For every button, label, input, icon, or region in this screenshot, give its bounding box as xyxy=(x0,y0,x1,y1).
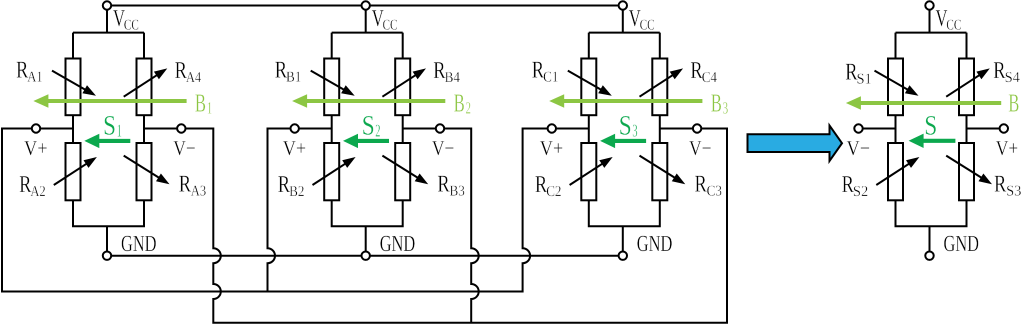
svg-text:S3: S3 xyxy=(1006,183,1021,199)
svg-text:R: R xyxy=(437,171,449,197)
label V+ (left node, bridge C) xyxy=(540,136,564,160)
resistor R_A4 (top-right strain gauge) xyxy=(124,59,168,116)
node terminal V&#8722; (bridge S, left) xyxy=(854,124,862,132)
svg-text:A3: A3 xyxy=(191,183,206,199)
arrow B: equivalent bridge output (light green) xyxy=(846,96,1001,110)
label GND (bridge S) xyxy=(944,231,980,256)
power terminal VCC (bridge A) xyxy=(103,1,111,9)
wire: left node stub (bridge A) xyxy=(32,128,73,130)
svg-text:S2: S2 xyxy=(853,184,868,200)
power terminal VCC (bridge C) xyxy=(619,1,627,9)
label R_A1 xyxy=(16,58,43,86)
svg-text:A2: A2 xyxy=(30,184,45,200)
label S2 xyxy=(362,111,381,142)
node terminal V+ (bridge C) xyxy=(548,124,556,132)
svg-text:3: 3 xyxy=(632,121,637,141)
resistor R_B4 (top-right strain gauge) xyxy=(382,59,426,116)
svg-text:S: S xyxy=(362,111,375,142)
resistor R_S3 (bottom-right strain gauge) xyxy=(946,143,992,200)
resistor R_S1 (top-left strain gauge) xyxy=(875,59,919,116)
label VCC (bridge A) xyxy=(113,6,139,34)
label GND (bridge C) xyxy=(637,231,673,256)
label R_A2 xyxy=(19,172,46,200)
label VCC (bridge S) xyxy=(936,6,962,34)
svg-text:V−: V− xyxy=(689,136,712,160)
svg-text:B3: B3 xyxy=(450,183,465,199)
node terminal V+ (bridge S, right) xyxy=(1000,124,1008,132)
arrow S2: bridge B half-bridge output (dark green) xyxy=(343,134,389,148)
label R_S1 xyxy=(845,60,872,88)
label V- (right node, bridge B) xyxy=(432,136,455,160)
ground terminal GND (bridge C) xyxy=(619,252,627,260)
svg-text:2: 2 xyxy=(375,121,380,141)
label R_A3 xyxy=(179,171,206,199)
label R_S3 xyxy=(994,171,1021,199)
svg-text:B: B xyxy=(711,89,722,118)
label V+ (left node, bridge A) xyxy=(24,136,48,160)
label V- (right node, bridge A) xyxy=(173,136,196,160)
label V- (left node, bridge S) xyxy=(847,136,871,160)
svg-text:R: R xyxy=(695,171,707,197)
svg-text:3: 3 xyxy=(723,99,729,118)
wire: bridge bottom rail to GND terminal xyxy=(896,200,967,255)
arrow B2: bridge B full-bridge output (light green) xyxy=(292,94,445,108)
wire: left node stub (bridge S) xyxy=(854,128,895,130)
resistor R_C1 (top-left strain gauge) xyxy=(568,59,612,116)
label R_C2 xyxy=(535,172,562,200)
wire: V+ net (bridge A left node, down left edge, along V+ rail, up to bridge C left node) xyxy=(2,129,589,292)
svg-text:S1: S1 xyxy=(857,72,872,88)
wire: GND bottom rail linking bridges A, B, C xyxy=(107,255,623,257)
label V+ (right node, bridge S) xyxy=(996,136,1019,160)
svg-text:B4: B4 xyxy=(445,70,461,86)
resistor R_S4 (top-right strain gauge) xyxy=(946,59,990,116)
label VCC (bridge C) xyxy=(629,6,655,34)
ground terminal GND (bridge B) xyxy=(362,252,370,260)
wire: left node stub (bridge B) xyxy=(291,128,332,130)
arrow S1: bridge A half-bridge output (dark green) xyxy=(84,134,130,148)
bridge A: wire from VCC terminal to bridge top rail xyxy=(73,6,144,59)
power terminal VCC (bridge S) xyxy=(925,1,933,9)
wire: right node stub (bridge S) xyxy=(967,128,1009,130)
svg-text:S: S xyxy=(924,110,937,141)
node terminal V+ (bridge A) xyxy=(32,124,40,132)
svg-text:S: S xyxy=(103,111,116,142)
svg-text:1: 1 xyxy=(207,99,213,118)
wire: V- tap of bridge B (right node down to V- rail, hopping GND and V+ rails) xyxy=(403,129,479,323)
wire: V- net (bridge A right node, down, along V- bottom rail, up to bridge C right node) xyxy=(144,129,727,323)
node terminal V&#8722; (bridge C) xyxy=(693,124,701,132)
resistor R_A2 (bottom-left strain gauge) xyxy=(54,143,97,200)
svg-text:V+: V+ xyxy=(283,136,307,160)
arrow B1: bridge A full-bridge output (light green) xyxy=(33,94,186,108)
svg-text:V+: V+ xyxy=(540,136,564,160)
svg-text:GND: GND xyxy=(637,231,673,256)
wire: left mid node column (R_C1 bottom to R_C2 top) xyxy=(588,115,590,143)
svg-text:CC: CC xyxy=(640,18,655,34)
resistor R_C2 (bottom-left strain gauge) xyxy=(570,143,613,200)
bridge S: wire from VCC terminal to bridge top rail xyxy=(896,6,967,59)
label S (bridge S) xyxy=(924,110,937,141)
svg-text:B1: B1 xyxy=(286,70,301,86)
arrow S3: bridge C half-bridge output (dark green) xyxy=(600,134,646,148)
resistor R_B3 (bottom-right strain gauge) xyxy=(382,143,428,200)
svg-text:A1: A1 xyxy=(27,70,42,86)
svg-text:S: S xyxy=(619,111,632,142)
svg-text:R: R xyxy=(994,171,1006,197)
wire: left node stub (bridge C) xyxy=(548,128,589,130)
svg-text:CC: CC xyxy=(946,18,961,34)
arrow S: equivalent half-bridge output (dark green) xyxy=(909,134,956,148)
node terminal V&#8722; (bridge A) xyxy=(177,124,185,132)
wire: right mid node column (R_S4 bottom to R_S3 top) xyxy=(966,115,968,143)
node terminal V&#8722; (bridge B) xyxy=(436,124,444,132)
wire: left mid node column (R_B1 bottom to R_B2 top) xyxy=(331,115,333,143)
resistor R_B1 (top-left strain gauge) xyxy=(311,59,355,116)
svg-text:R: R xyxy=(179,171,191,197)
label R_S4 xyxy=(993,58,1020,86)
bridge C: wire from VCC terminal to bridge top rail xyxy=(589,6,660,59)
svg-text:C2: C2 xyxy=(546,184,561,200)
resistor R_A1 (top-left strain gauge) xyxy=(52,59,96,116)
svg-text:CC: CC xyxy=(124,18,139,34)
label V- (right node, bridge C) xyxy=(689,136,712,160)
label R_C1 xyxy=(532,58,559,86)
svg-text:C1: C1 xyxy=(543,70,558,86)
wire: left mid node column (R_S1 bottom to R_S2 top) xyxy=(895,115,897,143)
label B1 xyxy=(195,89,212,118)
label V+ (left node, bridge B) xyxy=(283,136,307,160)
label B (bridge S) xyxy=(1008,89,1019,118)
resistor R_A3 (bottom-right strain gauge) xyxy=(124,143,170,200)
label R_B3 xyxy=(437,171,464,199)
svg-text:GND: GND xyxy=(944,231,980,256)
wire: bridge bottom rail to GND terminal xyxy=(73,200,144,255)
svg-text:C4: C4 xyxy=(702,70,718,86)
label GND (bridge A) xyxy=(121,231,157,256)
label S1 xyxy=(103,111,122,142)
svg-text:S4: S4 xyxy=(1005,70,1021,86)
label S3 xyxy=(619,111,638,142)
node terminal V+ (bridge B) xyxy=(291,124,299,132)
svg-text:V−: V− xyxy=(847,136,871,160)
svg-text:A4: A4 xyxy=(186,70,202,86)
svg-text:C3: C3 xyxy=(707,183,722,199)
wire: VCC top rail linking bridges A, B, C xyxy=(107,5,623,7)
svg-text:B2: B2 xyxy=(289,184,304,200)
label GND (bridge B) xyxy=(380,231,416,256)
label B2 xyxy=(454,89,471,118)
svg-text:B: B xyxy=(195,89,206,118)
resistor R_C3 (bottom-right strain gauge) xyxy=(640,143,686,200)
svg-text:V−: V− xyxy=(432,136,455,160)
label R_B4 xyxy=(433,58,460,86)
arrow B3: bridge C full-bridge output (light green) xyxy=(549,94,702,108)
wire: V+ tap of bridge B (left node down to V+ rail, hopping GND rail) xyxy=(268,129,332,292)
wire: right mid node column (R_A4 bottom to R_A3 top) xyxy=(143,115,145,143)
label R_C3 xyxy=(695,171,722,199)
svg-text:B: B xyxy=(454,89,465,118)
svg-text:CC: CC xyxy=(383,18,398,34)
label R_S2 xyxy=(842,172,869,200)
svg-text:GND: GND xyxy=(380,231,416,256)
equivalence block arrow (blue, pointing right) xyxy=(748,126,843,162)
label R_B1 xyxy=(275,58,302,86)
svg-text:2: 2 xyxy=(466,99,472,118)
svg-text:V+: V+ xyxy=(996,136,1019,160)
wire: bridge bottom rail to GND terminal xyxy=(332,200,403,255)
wire: right mid node column (R_C4 bottom to R_C3 top) xyxy=(659,115,661,143)
svg-text:1: 1 xyxy=(117,121,122,141)
ground terminal GND (bridge S) xyxy=(925,252,933,260)
wire: right mid node column (R_B4 bottom to R_B3 top) xyxy=(402,115,404,143)
svg-text:V+: V+ xyxy=(24,136,48,160)
label R_C4 xyxy=(690,58,717,86)
label R_A4 xyxy=(175,58,202,86)
bridge B: wire from VCC terminal to bridge top rail xyxy=(332,6,403,59)
wire: bridge bottom rail to GND terminal xyxy=(589,200,660,255)
label R_B2 xyxy=(278,172,305,200)
label B3 xyxy=(711,89,728,118)
resistor R_S2 (bottom-left strain gauge) xyxy=(876,143,919,200)
resistor R_C4 (top-right strain gauge) xyxy=(640,59,684,116)
label VCC (bridge B) xyxy=(372,6,398,34)
svg-text:GND: GND xyxy=(121,231,157,256)
svg-text:V−: V− xyxy=(173,136,196,160)
wire: left mid node column (R_A1 bottom to R_A2 top) xyxy=(72,115,74,143)
svg-text:B: B xyxy=(1008,89,1019,118)
ground terminal GND (bridge A) xyxy=(103,252,111,260)
resistor R_B2 (bottom-left strain gauge) xyxy=(313,143,356,200)
power terminal VCC (bridge B) xyxy=(362,1,370,9)
